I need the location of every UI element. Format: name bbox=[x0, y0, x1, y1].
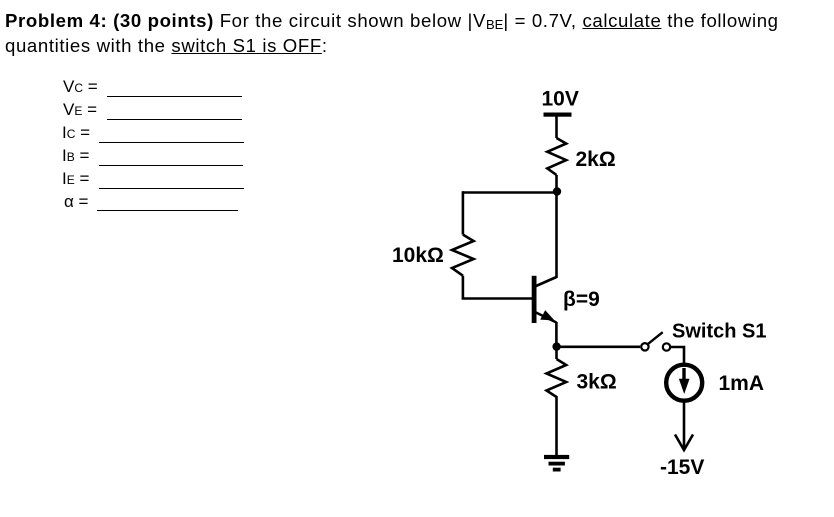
transistor collector diagonal bbox=[536, 277, 557, 286]
svg-text:1mA: 1mA bbox=[719, 372, 765, 395]
wire emitter node to switch bbox=[557, 345, 641, 348]
svg-text:2kΩ: 2kΩ bbox=[576, 148, 616, 171]
wire current source to -15V bbox=[683, 401, 686, 449]
answer blank row alpha bbox=[64, 192, 88, 212]
svg-text:β=9: β=9 bbox=[563, 288, 600, 311]
wire R2k to collector node bbox=[555, 175, 558, 193]
svg-text:10kΩ: 10kΩ bbox=[392, 244, 444, 267]
transistor Q1 base bar bbox=[532, 276, 537, 323]
wire feedback left vertical lower bbox=[462, 276, 465, 299]
switch S1 lever bbox=[648, 332, 662, 344]
answer blank row Ve bbox=[63, 100, 97, 120]
current source arrow shaft bbox=[682, 368, 685, 380]
current source arrow head bbox=[679, 379, 690, 394]
svg-text:3kΩ: 3kΩ bbox=[577, 370, 617, 393]
wire feedback top horizontal bbox=[463, 191, 557, 194]
switch S1 left contact bbox=[641, 343, 648, 350]
answer blank row Ie bbox=[62, 169, 89, 189]
wire feedback left vertical upper bbox=[462, 191, 465, 234]
wire collector vertical bbox=[555, 192, 558, 279]
switch S1 right contact bbox=[663, 343, 670, 350]
transistor emitter diagonal bbox=[536, 313, 556, 323]
supply terminal 10V bar bbox=[544, 113, 572, 117]
problem statement header bbox=[5, 9, 805, 57]
transistor emitter arrow bbox=[540, 310, 554, 320]
wire R3k to ground bbox=[555, 402, 558, 455]
answer blank row Vc bbox=[63, 77, 98, 97]
wire switch to current source bbox=[671, 347, 684, 364]
wire supply to R2k bbox=[555, 117, 558, 139]
arrow head to -15V bbox=[675, 435, 693, 451]
wire base horizontal bbox=[462, 297, 534, 300]
current source I1 circle bbox=[666, 365, 702, 401]
emitter node dot bbox=[552, 342, 560, 350]
ground symbol bbox=[544, 455, 569, 472]
resistor R 10k zigzag bbox=[452, 235, 474, 276]
answer blank row Ic bbox=[62, 123, 90, 143]
resistor R 3k zigzag bbox=[547, 359, 567, 402]
collector node dot bbox=[553, 187, 561, 195]
answer blank row Ib bbox=[62, 146, 89, 166]
svg-text:10V: 10V bbox=[542, 88, 579, 111]
wire emitter vertical bbox=[555, 322, 558, 347]
wire emitter node to R3k bbox=[555, 347, 558, 359]
resistor R 2k zigzag bbox=[547, 138, 566, 175]
svg-text:Switch S1: Switch S1 bbox=[672, 321, 766, 343]
svg-text:-15V: -15V bbox=[660, 456, 704, 479]
